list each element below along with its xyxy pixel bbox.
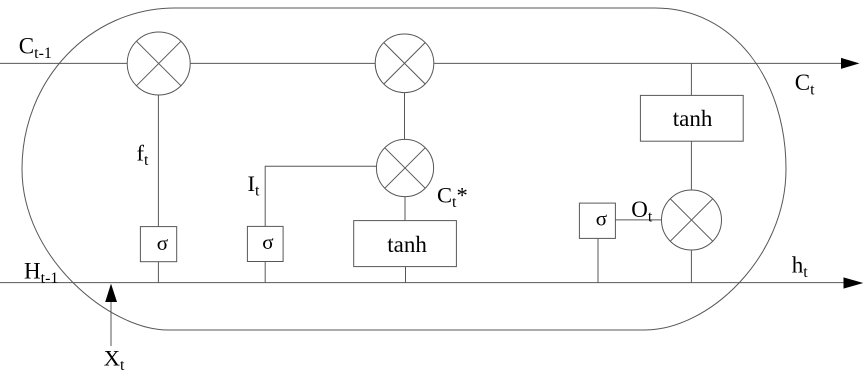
wire right vertical bbox=[690, 63, 692, 282]
multiply circle output gate bbox=[662, 190, 722, 250]
tanh box output bbox=[640, 95, 743, 141]
multiply circle cell update bbox=[375, 34, 434, 93]
svg-text:ft: ft bbox=[137, 141, 150, 170]
svg-text:Ot: Ot bbox=[631, 197, 653, 226]
multiply circle forget gate bbox=[127, 32, 190, 95]
svg-text:Ct*: Ct* bbox=[437, 183, 468, 212]
cell boundary rounded rectangle bbox=[22, 8, 786, 330]
svg-text:ht: ht bbox=[792, 253, 809, 282]
arrowhead Ct bbox=[841, 58, 860, 69]
sigma box forget bbox=[140, 227, 176, 262]
svg-text:σ: σ bbox=[596, 206, 607, 230]
svg-text:It: It bbox=[248, 171, 261, 200]
sigma box output bbox=[579, 203, 615, 238]
svg-text:Ct: Ct bbox=[795, 70, 815, 99]
wire output sigma tap bbox=[597, 238, 599, 282]
svg-text:Ht-1: Ht-1 bbox=[24, 259, 58, 288]
svg-text:σ: σ bbox=[262, 230, 273, 254]
wire H line bbox=[0, 282, 845, 284]
svg-text:Xt: Xt bbox=[104, 346, 125, 371]
svg-text:σ: σ bbox=[157, 231, 168, 255]
tanh box candidate bbox=[354, 221, 457, 267]
svg-text:tanh: tanh bbox=[387, 232, 427, 257]
wire input gate path bbox=[265, 166, 376, 282]
wire C line bbox=[0, 62, 843, 64]
arrowhead Xt bbox=[105, 284, 117, 302]
wire sigma to output circle bbox=[615, 219, 661, 221]
svg-text:Ct-1: Ct-1 bbox=[19, 33, 52, 62]
sigma box input bbox=[247, 226, 283, 261]
wire Xt input shaft bbox=[110, 302, 112, 346]
svg-text:tanh: tanh bbox=[673, 106, 713, 131]
wire center vertical bbox=[405, 93, 406, 283]
arrowhead ht bbox=[844, 277, 864, 288]
wire forget vertical bbox=[157, 95, 159, 283]
multiply circle input gate bbox=[376, 139, 433, 196]
